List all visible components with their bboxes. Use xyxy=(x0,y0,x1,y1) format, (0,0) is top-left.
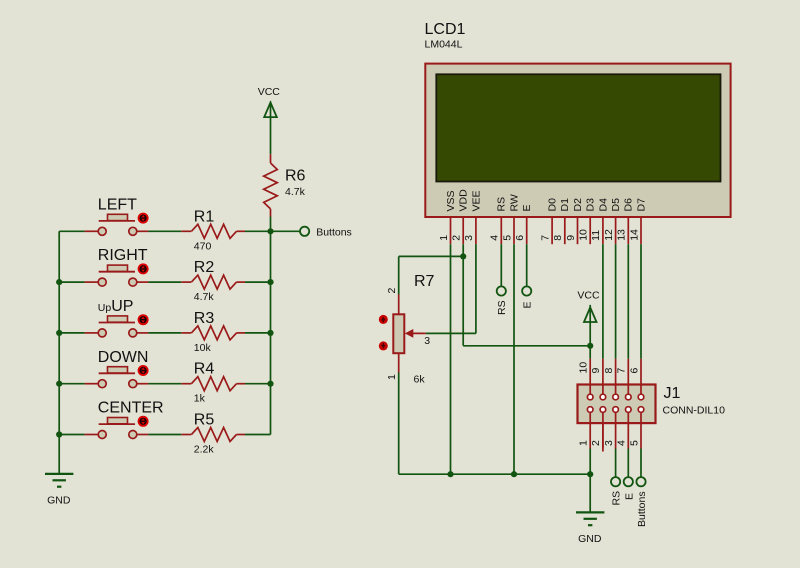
svg-text:J1: J1 xyxy=(664,385,681,402)
svg-text:RIGHT: RIGHT xyxy=(98,247,148,264)
svg-text:14: 14 xyxy=(628,229,640,241)
svg-text:D0: D0 xyxy=(547,198,559,212)
svg-text:E: E xyxy=(623,493,635,500)
svg-text:E: E xyxy=(521,301,533,308)
svg-text:13: 13 xyxy=(616,229,628,241)
svg-text:1k: 1k xyxy=(194,393,206,405)
svg-text:VEE: VEE xyxy=(470,190,482,211)
svg-text:8: 8 xyxy=(603,368,615,374)
svg-text:R6: R6 xyxy=(285,168,306,185)
svg-text:LEFT: LEFT xyxy=(98,196,137,213)
svg-text:2.2k: 2.2k xyxy=(194,444,215,456)
svg-text:RW: RW xyxy=(508,194,520,211)
svg-text:E: E xyxy=(521,204,533,211)
svg-text:2: 2 xyxy=(386,288,398,294)
svg-text:VCC: VCC xyxy=(577,290,600,302)
svg-text:10: 10 xyxy=(578,362,590,374)
svg-text:4: 4 xyxy=(489,235,501,241)
svg-text:10k: 10k xyxy=(194,342,212,354)
svg-text:D2: D2 xyxy=(572,198,584,212)
svg-text:10: 10 xyxy=(578,229,590,241)
svg-text:DOWN: DOWN xyxy=(98,349,149,366)
svg-text:GND: GND xyxy=(578,533,602,545)
svg-text:VSS: VSS xyxy=(445,190,457,211)
svg-text:1: 1 xyxy=(438,235,450,241)
svg-text:R4: R4 xyxy=(194,361,215,378)
svg-text:R7: R7 xyxy=(414,273,435,290)
svg-text:6: 6 xyxy=(514,235,526,241)
svg-text:9: 9 xyxy=(590,368,602,374)
svg-text:3: 3 xyxy=(424,335,430,347)
svg-text:5: 5 xyxy=(501,235,513,241)
svg-text:D5: D5 xyxy=(610,198,622,212)
svg-text:4.7k: 4.7k xyxy=(285,186,306,198)
svg-text:R2: R2 xyxy=(194,259,215,276)
svg-text:1: 1 xyxy=(578,440,590,446)
svg-text:2: 2 xyxy=(451,235,463,241)
svg-text:1: 1 xyxy=(386,374,398,380)
svg-text:RS: RS xyxy=(611,491,623,506)
svg-text:4.7k: 4.7k xyxy=(194,291,215,303)
svg-text:D7: D7 xyxy=(635,198,647,212)
svg-text:RS: RS xyxy=(496,197,508,212)
svg-text:D3: D3 xyxy=(585,198,597,212)
svg-text:9: 9 xyxy=(565,235,577,241)
svg-text:2: 2 xyxy=(590,440,602,446)
svg-text:11: 11 xyxy=(590,230,602,241)
svg-text:Buttons: Buttons xyxy=(316,226,352,238)
svg-text:3: 3 xyxy=(603,440,615,446)
svg-text:RS: RS xyxy=(496,300,508,315)
svg-text:470: 470 xyxy=(194,240,212,252)
svg-text:GND: GND xyxy=(47,494,71,506)
svg-text:VCC: VCC xyxy=(258,86,281,98)
svg-text:3: 3 xyxy=(463,235,475,241)
svg-text:D1: D1 xyxy=(559,198,571,212)
svg-text:CENTER: CENTER xyxy=(98,400,164,417)
svg-text:7: 7 xyxy=(616,368,628,374)
svg-text:R5: R5 xyxy=(194,412,215,429)
svg-text:6k: 6k xyxy=(414,373,426,385)
svg-text:D6: D6 xyxy=(623,198,635,212)
svg-text:7: 7 xyxy=(539,235,551,241)
svg-text:6: 6 xyxy=(628,368,640,374)
svg-text:LM044L: LM044L xyxy=(425,38,463,50)
svg-text:Buttons: Buttons xyxy=(636,491,648,527)
svg-text:R1: R1 xyxy=(194,208,215,225)
svg-text:VDD: VDD xyxy=(458,189,470,212)
svg-text:LCD1: LCD1 xyxy=(425,21,466,38)
svg-text:D4: D4 xyxy=(597,198,609,212)
svg-text:12: 12 xyxy=(603,229,615,241)
svg-text:CONN-DIL10: CONN-DIL10 xyxy=(663,405,726,417)
svg-text:R3: R3 xyxy=(194,310,215,327)
svg-text:4: 4 xyxy=(616,440,628,446)
svg-text:8: 8 xyxy=(552,235,564,241)
svg-text:5: 5 xyxy=(628,440,640,446)
